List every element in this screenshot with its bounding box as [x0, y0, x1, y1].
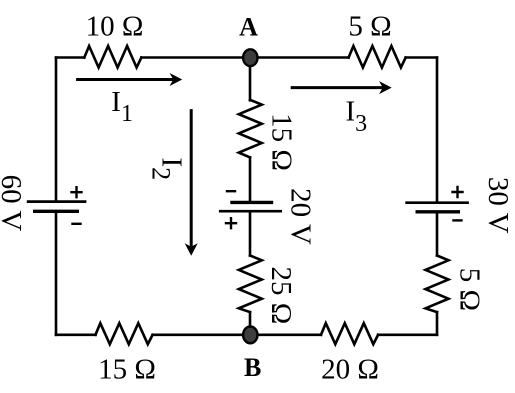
battery 20V minus sign: [227, 190, 235, 192]
battery 60V long plate (+): [27, 200, 87, 203]
wire middle lower (25 Ohm to node B): [249, 312, 252, 335]
wire bottom (node B to 20 Ohm): [250, 333, 321, 336]
resistor 15 Ohm middle vertical zigzag: [239, 100, 262, 158]
svg-text:20 Ω: 20 Ω: [321, 354, 379, 386]
battery 20V plus sign: [226, 218, 236, 228]
battery 60V short plate (-): [33, 210, 79, 213]
svg-text:25 Ω: 25 Ω: [265, 266, 297, 324]
node A dot: [243, 49, 257, 66]
wire right upper vertical: [436, 58, 439, 202]
svg-text:30 V: 30 V: [482, 177, 514, 234]
wire top (node A to 5 Ohm): [250, 56, 349, 59]
svg-text:15 Ω: 15 Ω: [98, 354, 156, 386]
wire top-left horizontal: [56, 56, 84, 59]
wire left lower vertical: [55, 213, 58, 335]
battery 20V short plate (-) top: [230, 201, 273, 204]
battery 30V short plate (-): [416, 210, 461, 213]
svg-text:20 V: 20 V: [284, 188, 316, 245]
battery 30V plus sign: [453, 187, 463, 197]
battery 20V long plate (+) bottom: [219, 210, 282, 213]
current arrow I1 line: [78, 78, 172, 81]
wire middle (15 Ohm to 20V battery): [249, 157, 252, 201]
battery 30V minus sign: [454, 219, 462, 221]
wire middle upper (node A to 15 Ohm): [249, 58, 252, 101]
svg-text:A: A: [239, 13, 258, 42]
wire bottom-left horizontal: [56, 333, 96, 336]
svg-text:60 V: 60 V: [0, 175, 27, 232]
wire left upper vertical: [55, 58, 58, 201]
wire bottom (15 Ohm to node B): [153, 333, 250, 336]
svg-text:5 Ω: 5 Ω: [454, 268, 486, 311]
current arrow I3 line: [292, 86, 382, 89]
resistor 5 Ohm top-right zigzag: [349, 46, 406, 68]
wire top-right corner: [406, 56, 437, 59]
wire right middle (30V battery to 5 Ohm): [436, 213, 439, 256]
wire middle (20V battery to 25 Ohm): [249, 213, 252, 256]
svg-text:10 Ω: 10 Ω: [86, 11, 144, 43]
battery 60V minus sign: [73, 223, 81, 225]
battery 60V plus sign: [72, 187, 82, 197]
svg-text:15 Ω: 15 Ω: [266, 113, 298, 171]
wire bottom-right corner: [378, 333, 437, 336]
resistor 15 Ohm bottom-left zigzag: [96, 323, 153, 344]
current arrow I1 head: [170, 73, 183, 86]
svg-text:B: B: [244, 353, 261, 382]
resistor 25 Ohm middle vertical zigzag: [239, 256, 262, 313]
current arrow I2 line: [190, 111, 193, 247]
battery 30V long plate (+): [405, 201, 469, 204]
current arrow I2 head: [185, 243, 198, 256]
resistor 5 Ohm right vertical zigzag: [426, 256, 449, 313]
resistor 10 Ohm top-left zigzag: [84, 46, 141, 68]
svg-text:5 Ω: 5 Ω: [348, 11, 391, 43]
resistor 20 Ohm bottom-right zigzag: [321, 323, 378, 344]
wire top-middle (10 Ohm to node A): [141, 56, 250, 59]
node B dot: [243, 327, 257, 344]
current arrow I3 head: [379, 81, 392, 94]
wire right lower vertical: [436, 312, 439, 335]
